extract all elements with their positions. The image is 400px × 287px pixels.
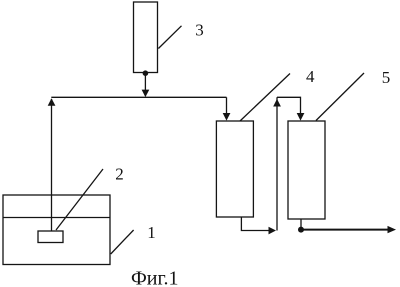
stub from column 5 bottom to node J2	[300, 219, 302, 228]
outlet arrow (bold)	[301, 229, 389, 231]
leader line for label 3	[158, 26, 181, 49]
main pipe (horizontal header)	[51, 96, 226, 98]
svg-text:3: 3	[195, 20, 204, 39]
column 5	[288, 121, 325, 219]
arrowhead of outlet	[388, 226, 397, 233]
leader line for label 4	[240, 74, 290, 122]
arrowhead down onto main pipe	[142, 90, 150, 98]
riser wire between columns	[276, 97, 278, 230]
wire from column 4 bottom across to riser	[241, 217, 268, 231]
tank 1	[3, 195, 110, 265]
wire from node J1 down to main pipe	[144, 76, 146, 91]
arrowhead into column 5	[297, 113, 305, 121]
arrowhead up on riser	[273, 99, 281, 107]
leader line for label 5	[316, 73, 364, 121]
svg-text:2: 2	[115, 165, 124, 184]
left riser wire from sensor 2 up to main pipe	[51, 99, 53, 231]
arrowhead up into main pipe	[48, 98, 56, 106]
column 4	[216, 121, 253, 217]
node J2 (dot on outlet)	[298, 227, 304, 233]
svg-text:5: 5	[382, 68, 391, 87]
liquid level line	[3, 217, 110, 219]
leader line for label 1	[111, 230, 134, 254]
arrowhead into riser	[269, 227, 277, 235]
leader line for label 2	[56, 169, 103, 230]
svg-text:4: 4	[306, 67, 315, 86]
wire: pipe turning down into column 4	[226, 97, 228, 113]
node J1 (dot under block 3)	[143, 70, 149, 76]
arrowhead into column 4	[223, 113, 231, 121]
svg-text:Фиг.1: Фиг.1	[131, 268, 178, 287]
block 3	[134, 2, 158, 73]
svg-text:1: 1	[147, 223, 156, 242]
sensor 2	[38, 231, 63, 243]
wire from riser top into column 5	[277, 97, 301, 113]
